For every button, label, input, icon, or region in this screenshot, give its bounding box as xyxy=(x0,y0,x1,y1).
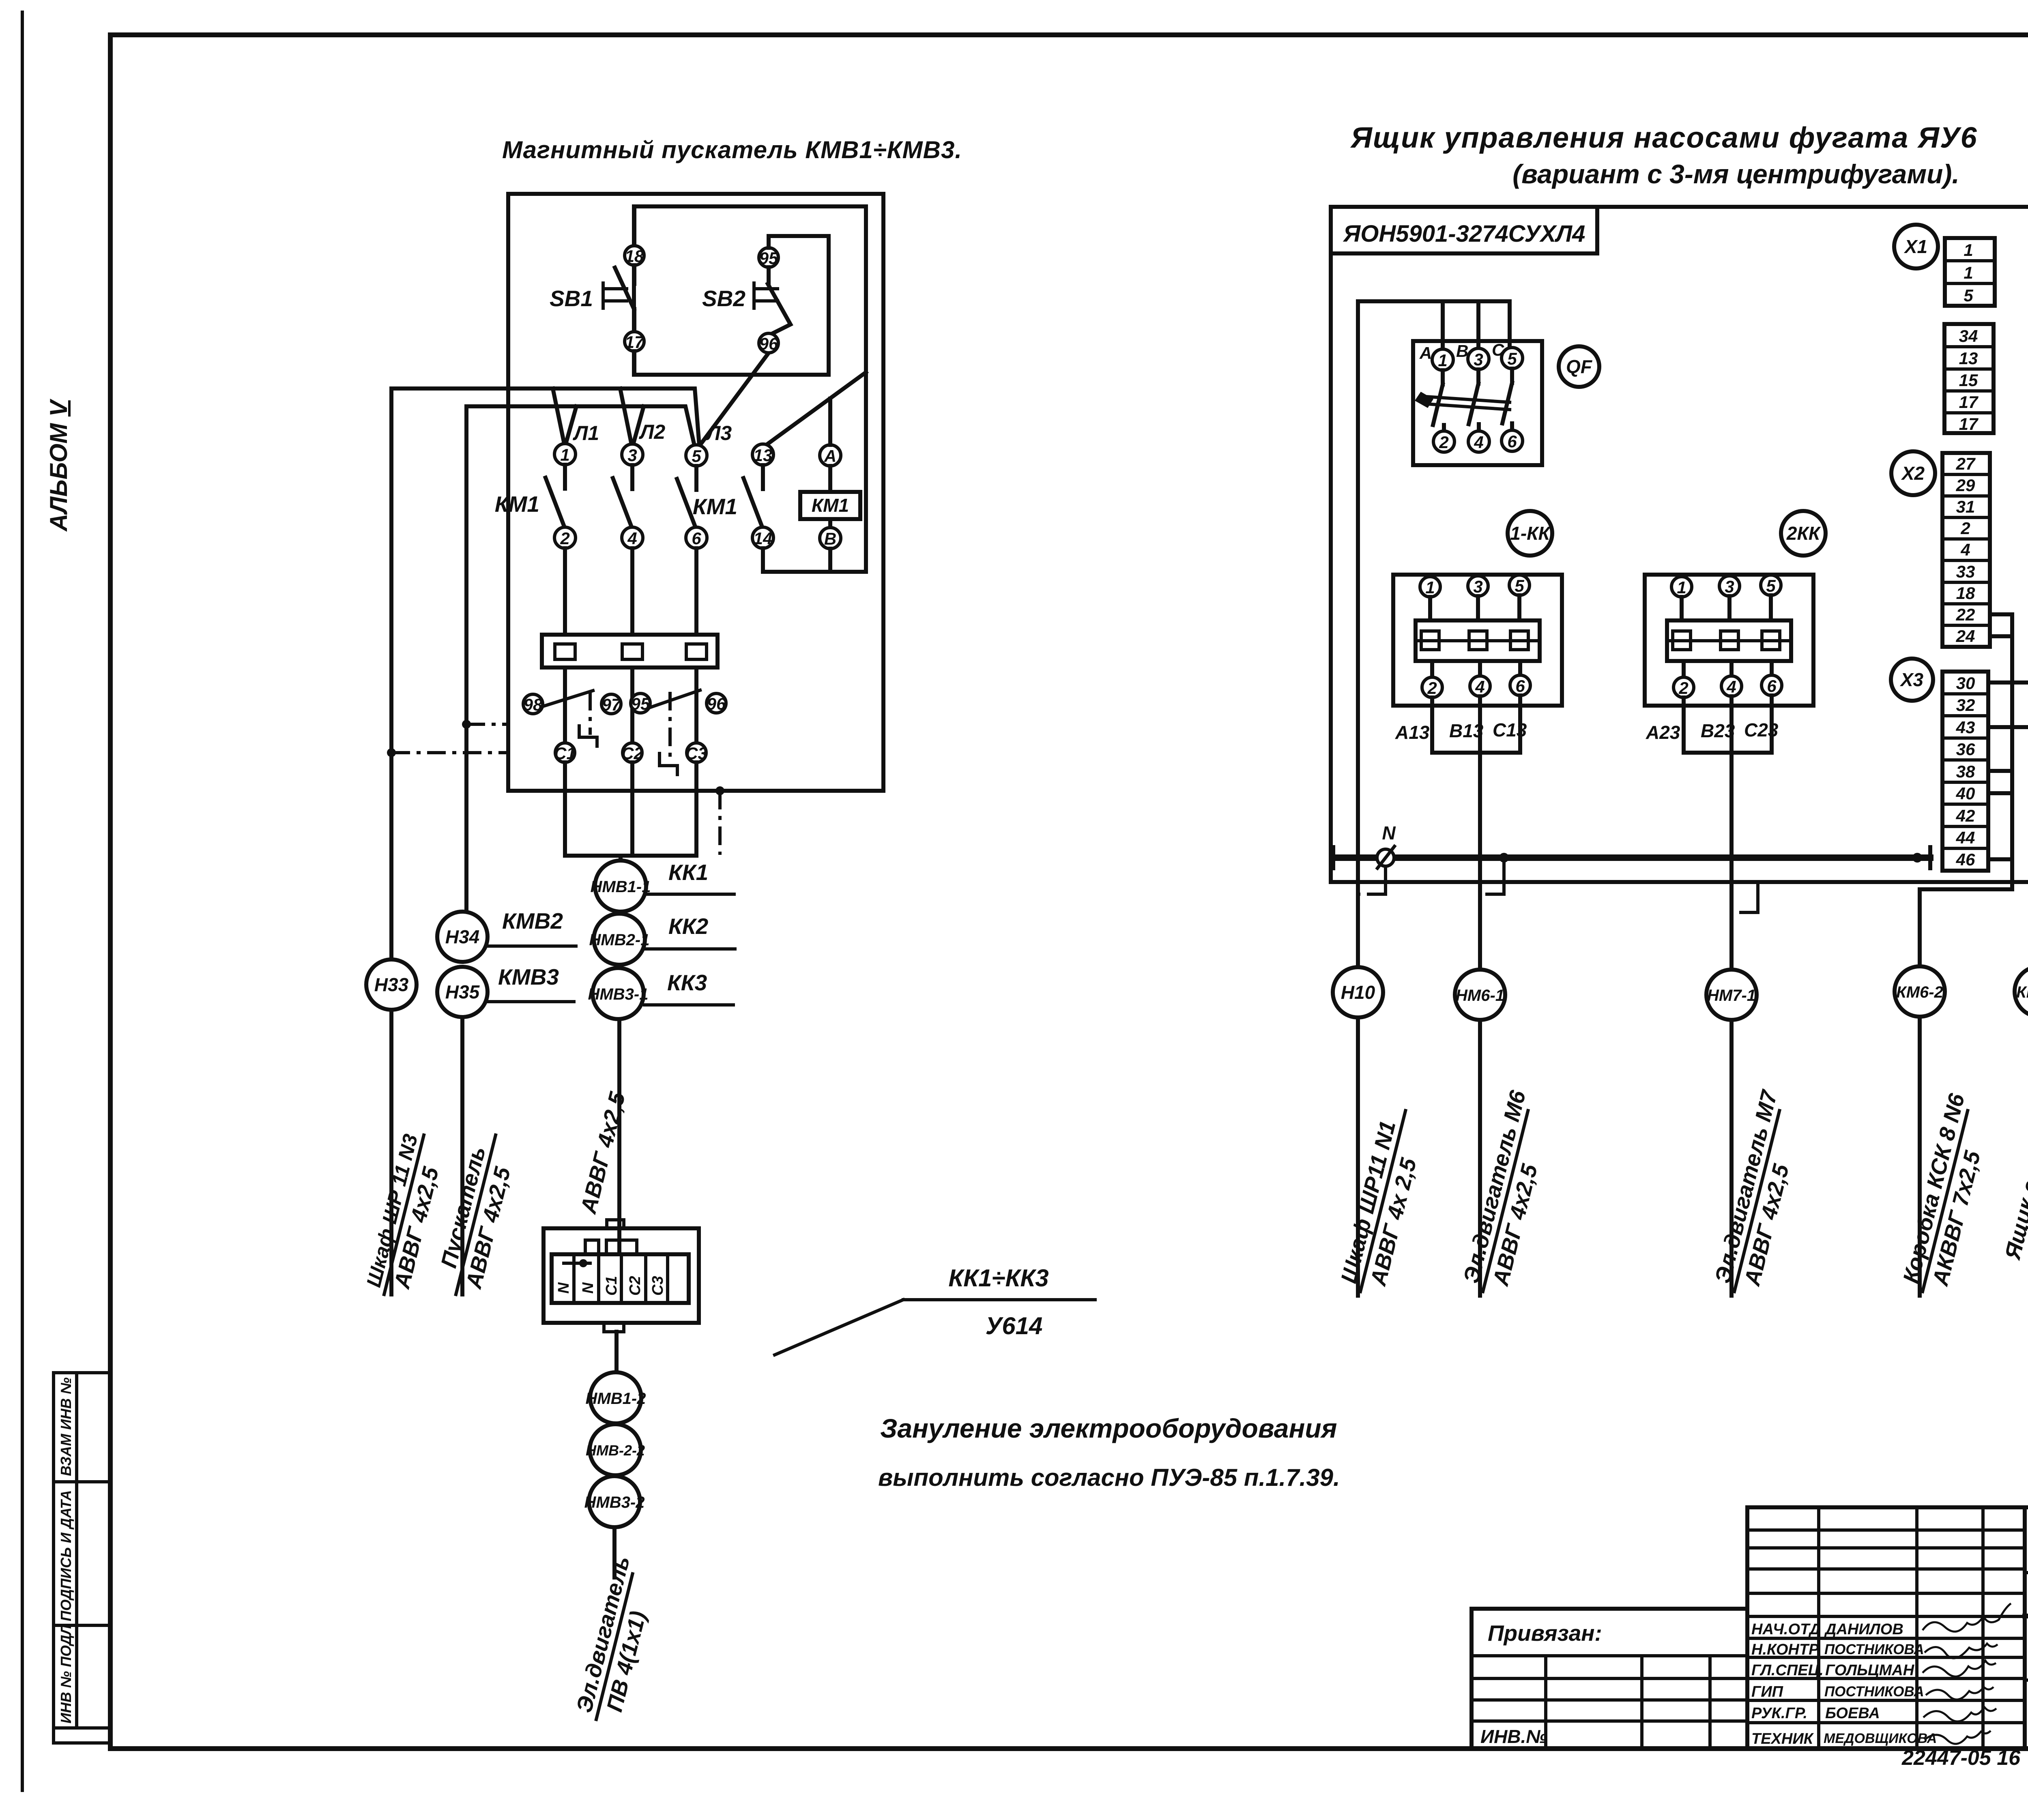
svg-text:1: 1 xyxy=(1438,351,1447,370)
svg-text:НМВ3-1: НМВ3-1 xyxy=(588,985,649,1003)
svg-text:ГИП: ГИП xyxy=(1751,1683,1783,1700)
svg-text:С1: С1 xyxy=(554,744,576,763)
svg-text:выполнить согласно ПУЭ-85 п.: выполнить согласно ПУЭ-85 п.1.7.39. xyxy=(878,1464,1340,1491)
svg-text:ГОЛЬЦМАН: ГОЛЬЦМАН xyxy=(1825,1662,1915,1679)
svg-text:Н10: Н10 xyxy=(1341,982,1375,1003)
svg-text:N: N xyxy=(580,1282,597,1294)
svg-text:5: 5 xyxy=(1964,286,1973,305)
svg-text:5: 5 xyxy=(692,446,701,466)
svg-text:Н.КОНТР: Н.КОНТР xyxy=(1751,1641,1819,1658)
svg-text:96: 96 xyxy=(707,694,726,713)
svg-text:30: 30 xyxy=(1956,674,1975,693)
svg-text:1: 1 xyxy=(560,445,569,464)
svg-text:95: 95 xyxy=(631,694,650,713)
svg-text:QF: QF xyxy=(1566,356,1593,377)
svg-text:14: 14 xyxy=(754,529,773,548)
svg-text:КК1÷КК3: КК1÷КК3 xyxy=(948,1264,1048,1292)
svg-text:БОЕВА: БОЕВА xyxy=(1825,1705,1880,1722)
svg-text:НМВ-2-2: НМВ-2-2 xyxy=(586,1442,645,1459)
svg-text:2: 2 xyxy=(1439,433,1448,452)
svg-text:5: 5 xyxy=(1766,576,1776,595)
svg-text:38: 38 xyxy=(1956,762,1975,781)
svg-text:4: 4 xyxy=(1474,433,1483,452)
svg-text:КК1: КК1 xyxy=(668,860,708,885)
svg-text:С23: С23 xyxy=(1744,719,1779,740)
svg-text:В23: В23 xyxy=(1701,720,1735,741)
svg-text:40: 40 xyxy=(1956,784,1975,803)
svg-text:Н33: Н33 xyxy=(374,974,409,995)
svg-text:ЯОН5901-3274СУХЛ4: ЯОН5901-3274СУХЛ4 xyxy=(1343,221,1585,247)
svg-text:ДАНИЛОВ: ДАНИЛОВ xyxy=(1824,1621,1903,1638)
svg-text:2: 2 xyxy=(560,529,569,548)
svg-text:4: 4 xyxy=(627,529,637,548)
svg-text:НМ6-1: НМ6-1 xyxy=(1456,987,1504,1004)
svg-text:С2: С2 xyxy=(627,1276,644,1296)
svg-text:15: 15 xyxy=(1959,371,1978,390)
svg-text:Зануление электрооборудования: Зануление электрооборудования xyxy=(880,1413,1337,1443)
svg-text:НМ7-1: НМ7-1 xyxy=(1707,987,1756,1004)
svg-text:N: N xyxy=(1382,822,1396,843)
svg-text:5: 5 xyxy=(1507,349,1517,368)
svg-text:В: В xyxy=(824,529,836,548)
svg-text:Ящик управления насосами фугат: Ящик управления насосами фугата ЯУ6 xyxy=(1350,122,1977,154)
svg-text:13: 13 xyxy=(1959,349,1978,368)
svg-text:6: 6 xyxy=(1515,676,1525,695)
svg-text:Л2: Л2 xyxy=(639,421,665,443)
svg-text:98: 98 xyxy=(524,695,543,714)
svg-text:КК3: КК3 xyxy=(667,970,707,995)
svg-text:С3: С3 xyxy=(685,744,707,763)
svg-text:6: 6 xyxy=(692,529,701,548)
svg-text:ТЕХНИК: ТЕХНИК xyxy=(1751,1730,1814,1747)
svg-text:2: 2 xyxy=(1678,678,1688,698)
svg-text:С13: С13 xyxy=(1493,719,1527,740)
svg-text:X2: X2 xyxy=(1901,463,1925,484)
svg-text:МЕДОВЩИКОВА: МЕДОВЩИКОВА xyxy=(1824,1731,1937,1746)
svg-text:33: 33 xyxy=(1956,562,1975,581)
svg-text:SB1: SB1 xyxy=(550,286,593,311)
svg-text:А: А xyxy=(1419,343,1432,363)
svg-text:2: 2 xyxy=(1960,519,1970,538)
svg-text:КМВ2: КМВ2 xyxy=(502,908,563,934)
svg-text:2КК: 2КК xyxy=(1786,523,1821,544)
svg-text:31: 31 xyxy=(1956,497,1975,516)
svg-text:АЛЬБОМ V: АЛЬБОМ V xyxy=(45,398,72,532)
svg-text:А13: А13 xyxy=(1395,722,1430,743)
svg-text:6: 6 xyxy=(1767,676,1777,695)
svg-text:13: 13 xyxy=(754,446,773,465)
svg-text:КМ6-3: КМ6-3 xyxy=(2016,983,2028,1001)
svg-text:3: 3 xyxy=(627,446,637,465)
svg-text:ПОДПИСЬ И ДАТА: ПОДПИСЬ И ДАТА xyxy=(58,1490,74,1621)
svg-text:95: 95 xyxy=(759,249,778,268)
svg-text:22: 22 xyxy=(1956,605,1975,624)
svg-text:18: 18 xyxy=(1956,584,1975,603)
svg-text:А23: А23 xyxy=(1646,722,1680,743)
svg-text:1: 1 xyxy=(1964,240,1973,260)
svg-text:2: 2 xyxy=(1427,678,1437,698)
svg-text:4: 4 xyxy=(1726,677,1736,696)
svg-text:Л1: Л1 xyxy=(573,422,599,444)
svg-text:НМВ2-1: НМВ2-1 xyxy=(589,931,650,949)
svg-text:97: 97 xyxy=(602,695,621,714)
svg-text:17: 17 xyxy=(1959,414,1979,434)
svg-text:КМ1: КМ1 xyxy=(495,491,539,517)
svg-text:44: 44 xyxy=(1956,828,1975,847)
svg-text:РУК.ГР.: РУК.ГР. xyxy=(1751,1705,1807,1722)
svg-text:X1: X1 xyxy=(1903,236,1927,257)
svg-text:ПОСТНИКОВА: ПОСТНИКОВА xyxy=(1824,1684,1924,1700)
svg-text:17: 17 xyxy=(625,333,644,352)
svg-text:Привязан:: Привязан: xyxy=(1488,1620,1602,1646)
svg-text:КМ1: КМ1 xyxy=(812,495,849,516)
svg-text:96: 96 xyxy=(759,334,778,353)
svg-text:4: 4 xyxy=(1475,677,1484,696)
svg-text:5: 5 xyxy=(1515,576,1524,595)
svg-text:КМ1: КМ1 xyxy=(693,494,737,519)
svg-text:1: 1 xyxy=(1677,578,1686,597)
svg-text:С1: С1 xyxy=(603,1276,620,1296)
svg-text:24: 24 xyxy=(1956,627,1975,646)
svg-text:КМ6-2: КМ6-2 xyxy=(1896,983,1943,1001)
svg-text:34: 34 xyxy=(1959,326,1978,346)
svg-text:X3: X3 xyxy=(1899,669,1924,690)
svg-text:36: 36 xyxy=(1956,740,1975,759)
svg-text:НАЧ.ОТД: НАЧ.ОТД xyxy=(1751,1621,1821,1638)
svg-text:29: 29 xyxy=(1956,476,1975,495)
svg-text:17: 17 xyxy=(1959,393,1979,412)
svg-text:КМВ3: КМВ3 xyxy=(498,964,559,989)
svg-text:32: 32 xyxy=(1956,695,1975,715)
svg-text:НМВ3-2: НМВ3-2 xyxy=(584,1494,645,1511)
svg-text:Н34: Н34 xyxy=(445,926,479,947)
svg-text:ИНВ № ПОДЛ: ИНВ № ПОДЛ xyxy=(58,1624,74,1723)
svg-text:ИНВ.№: ИНВ.№ xyxy=(1480,1726,1547,1747)
svg-text:43: 43 xyxy=(1956,718,1975,737)
svg-text:ВЗАМ ИНВ №: ВЗАМ ИНВ № xyxy=(58,1378,74,1476)
svg-text:27: 27 xyxy=(1956,454,1976,473)
svg-text:N: N xyxy=(555,1282,572,1294)
svg-text:1: 1 xyxy=(1425,578,1435,597)
svg-text:С3: С3 xyxy=(649,1276,666,1296)
svg-text:SB2: SB2 xyxy=(702,286,745,311)
svg-text:3: 3 xyxy=(1474,350,1483,369)
svg-text:4: 4 xyxy=(1960,540,1970,559)
svg-text:Л3: Л3 xyxy=(705,422,732,444)
svg-text:(вариант с 3-мя центрифугами).: (вариант с 3-мя центрифугами). xyxy=(1512,159,1959,189)
svg-text:6: 6 xyxy=(1507,432,1517,451)
svg-text:1-КК: 1-КК xyxy=(1510,523,1551,544)
svg-text:НМВ1-1: НМВ1-1 xyxy=(591,878,651,896)
svg-text:ПОСТНИКОВА: ПОСТНИКОВА xyxy=(1824,1642,1924,1657)
svg-text:1: 1 xyxy=(1964,263,1973,282)
svg-text:18: 18 xyxy=(625,247,644,266)
svg-text:КК2: КК2 xyxy=(668,914,709,939)
svg-text:У614: У614 xyxy=(986,1312,1043,1339)
svg-text:В13: В13 xyxy=(1449,720,1484,741)
svg-text:Н35: Н35 xyxy=(445,981,480,1002)
svg-text:С2: С2 xyxy=(621,744,643,763)
svg-text:3: 3 xyxy=(1725,577,1734,596)
svg-text:ГЛ.СПЕЦ.: ГЛ.СПЕЦ. xyxy=(1751,1662,1824,1679)
svg-text:42: 42 xyxy=(1956,806,1975,825)
svg-text:46: 46 xyxy=(1956,850,1975,869)
svg-text:22447-05 16: 22447-05 16 xyxy=(1901,1746,2021,1770)
svg-text:А: А xyxy=(824,446,836,466)
svg-text:Магнитный пускатель КМВ1÷КМВ3.: Магнитный пускатель КМВ1÷КМВ3. xyxy=(502,136,962,163)
svg-text:3: 3 xyxy=(1473,577,1482,596)
svg-text:НМВ1-2: НМВ1-2 xyxy=(586,1390,646,1408)
